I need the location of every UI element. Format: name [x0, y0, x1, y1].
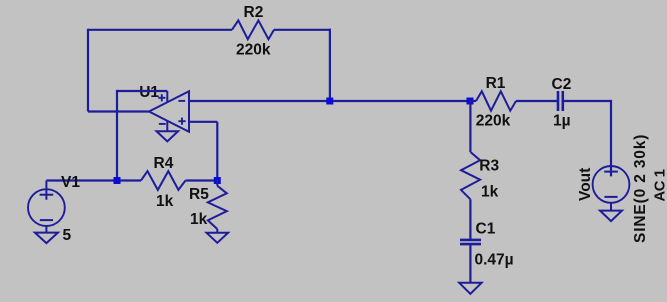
wire	[274, 29, 331, 31]
svg-text:0.47µ: 0.47µ	[475, 252, 514, 269]
wire	[470, 100, 476, 102]
svg-text:U1: U1	[139, 84, 159, 101]
node junction	[114, 177, 121, 184]
resistor R2	[232, 20, 274, 39]
minus marker (V1)	[40, 219, 53, 221]
wire	[469, 101, 471, 152]
svg-text:C1: C1	[476, 221, 496, 238]
wire	[87, 29, 89, 112]
ground (op-amp V-)	[157, 131, 179, 141]
wire	[516, 100, 558, 102]
svg-text:AC 1: AC 1	[652, 169, 667, 201]
svg-text:R1: R1	[486, 75, 506, 92]
wire	[46, 179, 141, 181]
svg-text:R3: R3	[479, 158, 499, 175]
wire	[469, 244, 471, 283]
svg-text:1k: 1k	[156, 193, 174, 210]
wire	[116, 90, 118, 181]
minus marker (Vout)	[604, 196, 617, 198]
resistor R1	[476, 91, 516, 110]
svg-text:220k: 220k	[476, 113, 511, 130]
svg-text:R4: R4	[154, 155, 174, 172]
resistor R5	[208, 186, 227, 229]
op-amp U1	[149, 91, 189, 132]
plus marker (Vout)	[604, 171, 618, 173]
op-amp V+ pin stub	[166, 91, 168, 103]
node junction	[214, 177, 221, 184]
plus marker (V1)	[40, 194, 54, 196]
svg-text:C2: C2	[552, 76, 572, 93]
svg-text:1k: 1k	[190, 211, 208, 228]
svg-text:1µ: 1µ	[553, 112, 571, 129]
svg-text:1k: 1k	[481, 184, 499, 201]
wire	[563, 100, 611, 102]
ground (R5)	[207, 233, 229, 243]
wire	[610, 203, 612, 211]
op-amp non-inverting input marker	[178, 118, 185, 125]
wire	[469, 199, 471, 240]
svg-text:SINE(0 2 30k): SINE(0 2 30k)	[632, 134, 649, 243]
svg-text:R5: R5	[189, 186, 209, 203]
op-amp V- minus marker	[159, 123, 166, 125]
op-amp inverting input marker	[178, 100, 185, 102]
svg-text:5: 5	[63, 227, 72, 244]
wire	[189, 100, 470, 102]
wire	[45, 181, 47, 200]
wire	[186, 179, 218, 181]
ground (V1)	[35, 233, 58, 244]
wire	[329, 29, 331, 101]
wire	[216, 229, 218, 233]
svg-text:Vout: Vout	[577, 168, 594, 201]
svg-text:R2: R2	[244, 4, 264, 21]
svg-text:V1: V1	[61, 174, 80, 191]
voltage source Vout	[593, 166, 630, 203]
wire	[610, 100, 612, 176]
ground (C1)	[459, 283, 481, 294]
wire	[189, 121, 217, 123]
capacitor C1	[460, 240, 481, 244]
wire	[216, 181, 218, 186]
svg-text:220k: 220k	[236, 41, 271, 58]
wire	[117, 90, 167, 92]
capacitor C2	[558, 91, 563, 111]
node junction	[467, 98, 474, 105]
ground (Vout)	[600, 211, 622, 222]
op-amp V- pin stub	[166, 121, 168, 131]
wire	[216, 122, 218, 181]
node junction	[326, 98, 333, 105]
wire	[45, 226, 47, 233]
resistor R4	[141, 171, 186, 190]
resistor R3	[461, 152, 480, 199]
wire	[88, 29, 232, 31]
wire	[88, 110, 149, 112]
op-amp V+ plus marker	[158, 94, 165, 101]
voltage source V1	[28, 189, 65, 226]
